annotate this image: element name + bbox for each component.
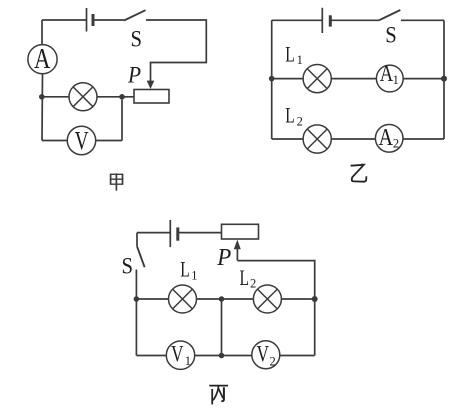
svg-text:L: L (285, 41, 295, 66)
svg-text:1: 1 (297, 53, 303, 67)
voltmeter V2 (252, 341, 280, 369)
wire (178, 232, 222, 234)
rheostat P (circuit 1) (134, 90, 169, 104)
svg-text:L: L (240, 265, 250, 290)
wire (281, 298, 314, 300)
node (119, 94, 125, 100)
wire (221, 299, 223, 356)
lamp L1 (circuit 2) (303, 65, 331, 93)
svg-text:V: V (257, 342, 270, 367)
label L1 (180, 257, 197, 283)
label jia (circuit 1 caption) (110, 173, 123, 190)
lamp L1 (circuit 3) (169, 285, 197, 313)
wire (136, 355, 166, 357)
node (134, 296, 140, 302)
battery B3 (170, 220, 178, 247)
ammeter A (28, 44, 57, 75)
voltmeter V (67, 126, 95, 155)
wire (41, 20, 43, 44)
svg-text:L: L (180, 257, 190, 282)
ammeter A1 (376, 61, 403, 92)
wire (314, 299, 316, 356)
wire (195, 355, 252, 357)
wire (443, 20, 445, 139)
wire (135, 270, 137, 356)
lamp L2 (circuit 3) (253, 285, 281, 313)
svg-text:1: 1 (191, 269, 197, 283)
wire (137, 232, 170, 234)
svg-text:V: V (75, 127, 89, 156)
slider arrow of rheostat P (234, 240, 241, 261)
label L2 (240, 265, 257, 291)
svg-text:A: A (380, 61, 394, 86)
svg-text:S: S (121, 253, 133, 278)
label L2 (285, 103, 303, 129)
wire (42, 19, 86, 21)
node (219, 353, 225, 359)
svg-text:P: P (216, 245, 231, 271)
wire (136, 233, 138, 247)
svg-text:1: 1 (185, 354, 191, 368)
battery B2 (322, 8, 330, 33)
node (219, 296, 225, 302)
wire (272, 19, 322, 21)
svg-text:2: 2 (297, 115, 303, 129)
rheostat P (circuit 3) (222, 224, 259, 239)
lamp L2 (circuit 2) (303, 125, 331, 153)
wire (271, 20, 273, 139)
wire (42, 140, 67, 142)
wire (197, 298, 254, 300)
wire (403, 78, 444, 80)
wire (146, 20, 206, 81)
switch S (circuit 2) (379, 10, 400, 20)
svg-text:A: A (378, 125, 393, 151)
slider arrow of rheostat P (147, 81, 155, 89)
svg-text:1: 1 (393, 73, 399, 87)
node (269, 76, 275, 82)
wire (136, 298, 168, 300)
wire (96, 140, 122, 142)
label L1 (285, 41, 303, 67)
label yi (circuit 2 caption) (351, 164, 367, 182)
node (312, 296, 318, 302)
svg-text:2: 2 (393, 136, 399, 150)
battery B1 (87, 8, 94, 32)
svg-text:S: S (385, 23, 397, 48)
wire (237, 261, 314, 297)
wire (331, 78, 376, 80)
wire (401, 19, 444, 21)
voltmeter V1 (166, 341, 194, 369)
switch S (circuit 3) (137, 246, 145, 267)
ammeter A2 (375, 125, 403, 153)
switch S (circuit 1) (124, 10, 146, 20)
wire (121, 100, 123, 141)
lamp (circuit 1) (69, 83, 97, 111)
node (39, 94, 45, 100)
svg-text:P: P (127, 63, 141, 89)
svg-text:L: L (285, 103, 295, 128)
wire (280, 355, 315, 357)
label bing (circuit 3 caption) (209, 386, 228, 405)
wire (41, 74, 44, 141)
node (441, 76, 447, 82)
wire (97, 96, 134, 98)
wire (44, 96, 69, 98)
svg-text:S: S (131, 27, 143, 52)
wire (330, 19, 379, 21)
wire (272, 138, 444, 140)
wire (272, 78, 303, 80)
svg-text:2: 2 (270, 354, 276, 368)
svg-text:V: V (171, 342, 184, 367)
svg-text:2: 2 (250, 277, 256, 291)
wire (93, 19, 124, 21)
svg-text:A: A (34, 44, 51, 75)
